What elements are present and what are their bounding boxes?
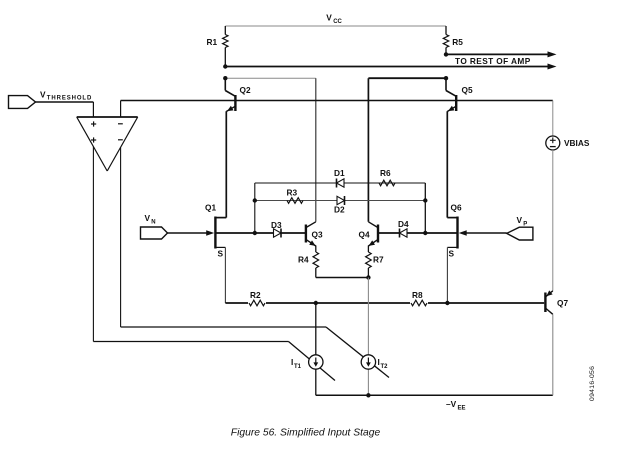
svg-text:R3: R3 [287, 188, 298, 198]
wire VN to Q1 gate with arrow [168, 230, 215, 236]
input flag VN [141, 213, 168, 239]
svg-text:Q6: Q6 [451, 203, 462, 213]
svg-text:Q1: Q1 [205, 203, 216, 213]
svg-text:V: V [517, 215, 523, 225]
svg-text:V: V [326, 13, 332, 23]
input flag VP [507, 215, 533, 240]
wire comparator ctrl B to IT1 [93, 342, 335, 381]
wire comparator ctrl A to IT2 [121, 327, 389, 378]
svg-text:Q4: Q4 [359, 230, 370, 240]
node R1 bottom [223, 64, 227, 68]
node R5 bottom [444, 52, 448, 56]
wire sub-loop left vertical [254, 183, 256, 233]
wire R2 R8 line [225, 302, 544, 304]
svg-text:TO REST OF AMP: TO REST OF AMP [455, 56, 531, 66]
wire sub-loop right vertical [424, 183, 426, 233]
wire left branch to Q3 collector [225, 78, 315, 222]
svg-text:Q2: Q2 [240, 85, 251, 95]
resistor R8 [410, 290, 428, 308]
svg-text:R8: R8 [412, 290, 423, 300]
node sub-loop right upper [423, 198, 427, 202]
svg-text:T2: T2 [381, 364, 389, 370]
diode D3 [271, 220, 282, 238]
svg-text:Figure 56. Simplified Input St: Figure 56. Simplified Input Stage [231, 428, 381, 439]
current source IT2 [361, 355, 388, 370]
transistor Q1 [205, 203, 226, 249]
svg-text:Q5: Q5 [462, 85, 473, 95]
svg-text:D3: D3 [271, 220, 282, 230]
wire comparator plus input stub [92, 102, 94, 117]
wire VP to Q6 gate with arrow [459, 230, 507, 236]
svg-text:D1: D1 [334, 168, 345, 178]
svg-text:S: S [449, 249, 455, 259]
svg-text:R7: R7 [373, 255, 384, 265]
svg-text:T1: T1 [294, 364, 302, 370]
wire comparator output right [120, 148, 122, 327]
svg-text:CC: CC [333, 19, 342, 25]
wire VCC top rail [225, 25, 446, 27]
transistor Q3 [306, 222, 323, 246]
wire R4 to R7 node [316, 277, 369, 279]
label -VEE [446, 399, 466, 412]
transistor Q5 [446, 78, 473, 111]
svg-text:THRESHOLD: THRESHOLD [47, 96, 92, 102]
current source IT1 [291, 355, 323, 370]
transistor Q6 [447, 203, 462, 249]
resistor R4 [298, 246, 319, 278]
resistor R5 [443, 26, 463, 54]
voltage source VBIAS [546, 101, 590, 291]
resistor R1 [207, 26, 229, 67]
wire IT1 branch vertical [315, 303, 317, 395]
svg-text:–V: –V [446, 399, 457, 409]
svg-text:R2: R2 [250, 290, 261, 300]
node R4 R7 [366, 275, 370, 279]
transistor Q7 [545, 290, 568, 314]
node VEE rail IT2 [366, 393, 370, 397]
svg-text:D2: D2 [334, 205, 345, 215]
wire comparator minus input stub [120, 101, 122, 118]
wire main line Q4 to Q6 [378, 232, 458, 234]
diode D1 [334, 168, 345, 188]
wire Q5 emitter to Q6 drain [446, 111, 448, 217]
op-amp comparator [77, 117, 138, 171]
wire upper loop rail D1 R6 [255, 182, 425, 184]
svg-text:R6: R6 [380, 168, 391, 178]
resistor R3 [287, 188, 304, 204]
wire comparator output left [92, 147, 94, 342]
svg-text:09416-056: 09416-056 [589, 366, 596, 401]
wire right branch to Q4 collector [368, 78, 446, 222]
label VCC [326, 13, 342, 26]
svg-text:N: N [151, 220, 155, 226]
node main right [423, 231, 427, 235]
resistor R6 [379, 168, 395, 186]
node sub-loop left upper [253, 198, 257, 202]
svg-text:EE: EE [458, 406, 466, 412]
resistor R7 [366, 246, 384, 278]
wire VEE bottom rail [316, 394, 553, 396]
svg-text:R5: R5 [452, 37, 463, 47]
node right branch [444, 76, 448, 80]
wire Q6 source down [446, 247, 448, 303]
wire arrow to rest of amp (lower) [225, 64, 556, 70]
node R8 line Q6 source [445, 301, 449, 305]
svg-text:VBIAS: VBIAS [564, 138, 590, 148]
diode D2 [334, 196, 345, 215]
wire comparator output line to VBIAS (bases of Q2 Q5) [121, 100, 553, 102]
comparator input signs [91, 121, 123, 142]
svg-text:Q3: Q3 [312, 230, 323, 240]
svg-text:Q7: Q7 [557, 298, 568, 308]
svg-text:V: V [145, 213, 151, 223]
input flag VTHRESHOLD [9, 90, 94, 109]
transistor Q2 [225, 78, 251, 111]
wire IT2 branch vertical [367, 278, 369, 396]
node main left [253, 231, 257, 235]
node R2 line IT1 [314, 301, 318, 305]
svg-text:V: V [40, 90, 46, 100]
wire Q1 source down [224, 247, 226, 303]
wire Q2 emitter to Q1 drain [225, 111, 227, 217]
diode D4 [398, 219, 409, 238]
wire arrow to rest of amp (upper) [446, 51, 557, 57]
resistor R2 [248, 290, 266, 308]
svg-text:R4: R4 [298, 255, 309, 265]
transistor Q4 [359, 222, 379, 246]
svg-text:D4: D4 [398, 219, 409, 229]
svg-text:I: I [378, 357, 380, 367]
svg-text:P: P [523, 222, 527, 228]
wire middle loop rail R3 D2 [255, 200, 425, 202]
node left branch [223, 76, 227, 80]
svg-text:I: I [291, 357, 293, 367]
svg-text:S: S [218, 249, 224, 259]
wire Q7 collector to VEE rail [552, 314, 554, 395]
wire main line Q1 to Q3 [215, 232, 306, 234]
svg-text:R1: R1 [207, 37, 218, 47]
